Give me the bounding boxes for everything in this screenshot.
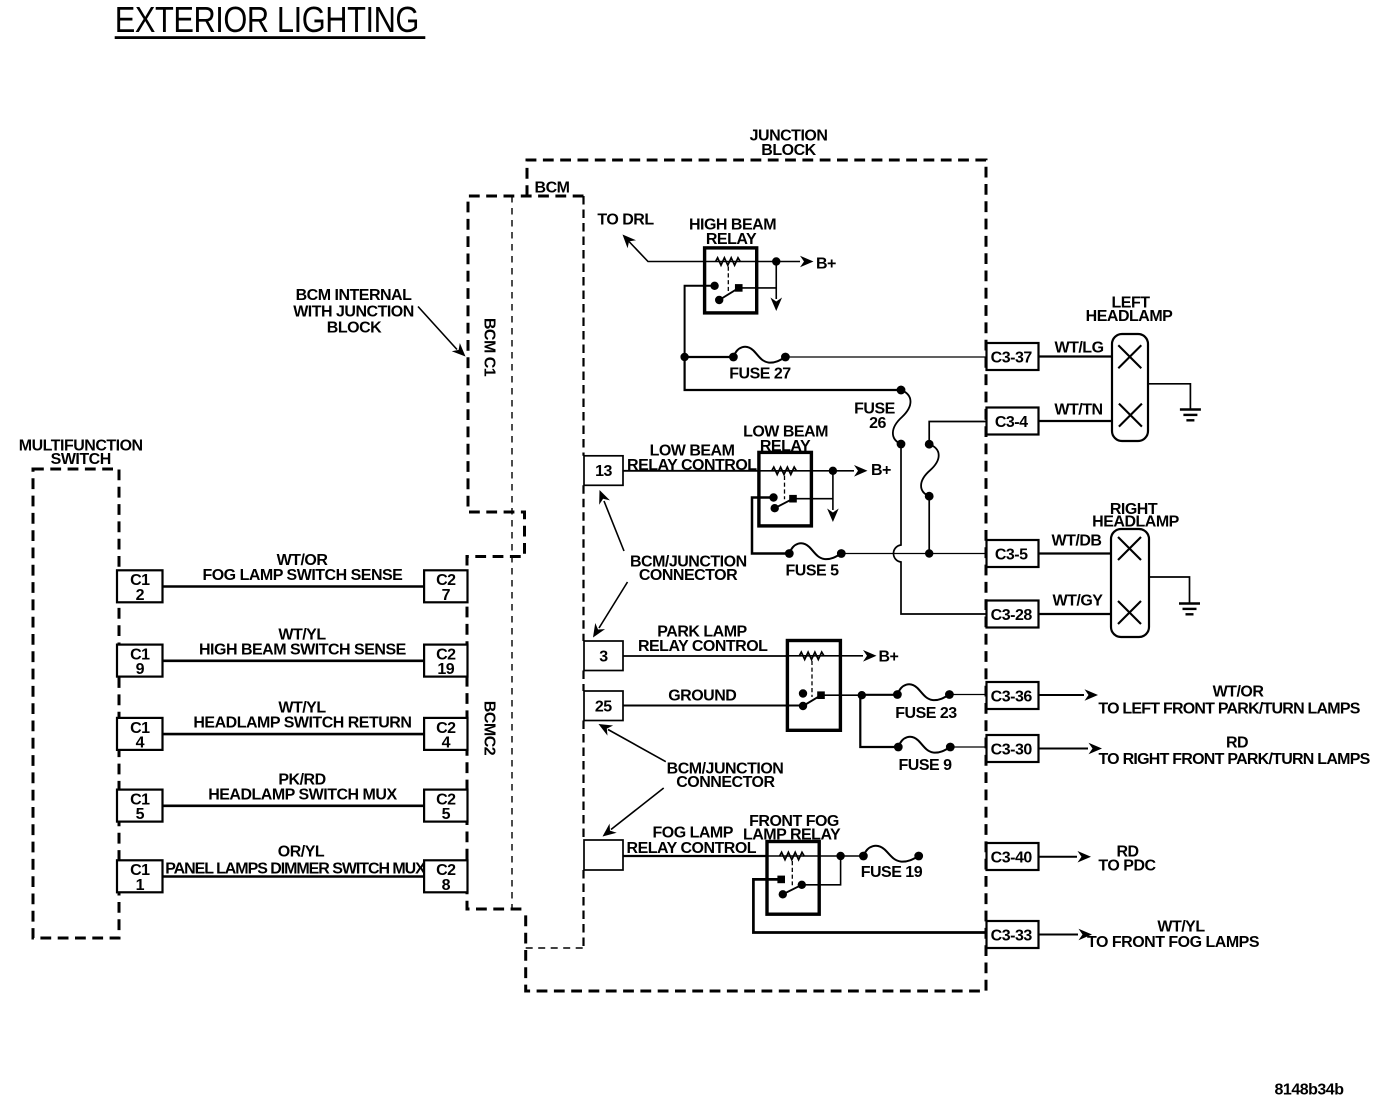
low beam B+ branch down arrow (827, 471, 839, 522)
fuse 5 (785, 543, 846, 559)
svg-text:1: 1 (136, 877, 145, 894)
connector (fog lamp relay control, unlabeled) (584, 840, 623, 870)
arrow to connector 13 (594, 488, 624, 551)
svg-text:WT/TN: WT/TN (1054, 402, 1102, 419)
wire label WT/YL HIGH BEAM SWITCH SENSE (199, 626, 407, 658)
svg-text:RD: RD (1226, 734, 1248, 751)
svg-text:C3-37: C3-37 (991, 349, 1033, 366)
svg-text:B+: B+ (871, 462, 891, 479)
label FUSE 19 (861, 864, 923, 881)
label LOW BEAM RELAY (743, 424, 828, 455)
left headlamp ground wire (1148, 384, 1190, 409)
wire switch to fuse 27 node (680, 286, 714, 361)
label FUSE 5 (785, 563, 839, 580)
wire C3-30 output arrow (1039, 743, 1103, 755)
high beam B+ branch down arrow (770, 262, 782, 312)
connector C3-4 (987, 408, 1039, 435)
svg-text:C3-36: C3-36 (991, 688, 1033, 705)
right headlamp ground wire (1149, 577, 1190, 603)
connector C3-33 (987, 921, 1039, 948)
wire fog relay to C3-33 (753, 879, 986, 932)
park lamp relay coil wire + B+ (787, 650, 876, 662)
label HIGH BEAM RELAY (689, 217, 776, 248)
wire fuse 9 to C3-30 (950, 746, 986, 748)
label PARK LAMP RELAY CONTROL (638, 624, 768, 655)
svg-text:TO PDC: TO PDC (1098, 857, 1156, 874)
wire connector 13 to low beam relay (623, 470, 759, 472)
svg-text:8148b34b: 8148b34b (1275, 1082, 1345, 1099)
connector C3-40 (987, 843, 1039, 870)
junction block label (750, 128, 828, 159)
wire C3-36 output arrow (1039, 689, 1099, 701)
label TO DRL (597, 212, 654, 229)
ground (right headlamp) (1179, 604, 1200, 615)
connector C3-30 (987, 735, 1039, 762)
left headlamp (1112, 334, 1148, 441)
BCM label (535, 180, 570, 197)
svg-text:C3-5: C3-5 (995, 546, 1028, 563)
label FUSE 23 (895, 705, 957, 722)
arrow from note to BCM C1 (418, 307, 470, 361)
fuse 23 (893, 684, 954, 700)
arrow to fog connector (599, 788, 664, 841)
wire fog connector to relay (623, 855, 767, 857)
wire wave to fuse5 line junction (925, 496, 933, 557)
svg-text:WT/LG: WT/LG (1054, 340, 1103, 357)
park lamp relay (787, 641, 840, 731)
label FOG LAMP RELAY CONTROL (627, 825, 757, 857)
svg-text:BCM: BCM (535, 180, 570, 197)
svg-text:26: 26 (869, 415, 886, 432)
connector C3-5 (987, 540, 1039, 567)
svg-text:TO FRONT FOG LAMPS: TO FRONT FOG LAMPS (1087, 934, 1260, 951)
svg-text:C3-33: C3-33 (991, 927, 1033, 944)
label GROUND (668, 688, 736, 705)
crossover wave (C3-4 branch) (921, 440, 939, 501)
wire label OR/YL PANEL LAMPS DIMMER SWITCH MUX (165, 844, 426, 878)
svg-text:C3-4: C3-4 (995, 414, 1028, 431)
wire fuse 27 to C3-37 (785, 356, 986, 358)
label BCM/JUNCTION CONNECTOR (lower) (667, 761, 784, 792)
title EXTERIOR LIGHTING (115, 1, 426, 41)
svg-text:SWITCH: SWITCH (51, 451, 111, 468)
connector C2 pin 5 (424, 790, 467, 824)
wire label PK/RD HEADLAMP SWITCH MUX (208, 771, 397, 803)
svg-text:BCM C1: BCM C1 (481, 318, 498, 377)
connector C2 pin 19 (424, 645, 467, 679)
connector C3-36 (987, 682, 1039, 709)
label WT/OR TO LEFT FRONT PARK/TURN LAMPS (1098, 684, 1360, 718)
wire C3-28 to right headlamp (1039, 613, 1112, 615)
wire fuse 26 to C3-28 (with crossover hop) (894, 444, 987, 614)
multifunction switch (dashed box) (33, 469, 119, 938)
arrow to connector 3 (588, 582, 627, 641)
BCM right edge dashed (BCM/junction boundary) (582, 196, 584, 948)
svg-text:BLOCK: BLOCK (327, 320, 382, 337)
BCM bottom thin dashed line (526, 947, 584, 949)
BCM inner thin dashed line (511, 196, 513, 909)
connector C2 pin 8 (424, 860, 467, 894)
svg-text:3: 3 (599, 648, 608, 665)
svg-text:4: 4 (136, 734, 145, 751)
wire connector 3 to park lamp relay (623, 655, 787, 657)
svg-text:FUSE 27: FUSE 27 (729, 366, 791, 383)
svg-text:B+: B+ (816, 256, 836, 273)
front fog lamp relay (767, 842, 819, 915)
connector C1 pin 4 (117, 718, 163, 752)
label RD TO PDC (1098, 843, 1156, 874)
wire C3-5 to right headlamp (1039, 552, 1112, 554)
junction block (dashed box) (526, 160, 986, 991)
low beam relay (759, 452, 812, 526)
svg-text:OR/YL: OR/YL (278, 844, 325, 861)
label B+ (high beam) (816, 256, 836, 273)
svg-text:RELAY CONTROL: RELAY CONTROL (638, 638, 768, 655)
connector C1 pin 9 (117, 645, 163, 679)
BCM C1 label (rotated) (481, 318, 498, 377)
svg-text:CONNECTOR: CONNECTOR (639, 567, 738, 584)
wire C3-33 output arrow (1039, 929, 1093, 941)
svg-text:19: 19 (437, 661, 454, 678)
wire C3-37 to left headlamp (1039, 355, 1113, 357)
wire to fuse 23 (860, 694, 897, 696)
fog relay coil wire to junction (767, 852, 863, 860)
BCM outline (thick dashed) (467, 196, 584, 909)
svg-text:WT/YL: WT/YL (1157, 918, 1205, 935)
part number 8148b34b (1275, 1082, 1345, 1099)
label B+ (park lamp) (879, 648, 899, 665)
svg-text:FUSE 5: FUSE 5 (785, 563, 839, 580)
svg-text:WT/OR: WT/OR (1213, 684, 1265, 701)
svg-text:HEADLAMP: HEADLAMP (1086, 308, 1173, 325)
svg-text:BCM INTERNAL: BCM INTERNAL (296, 287, 412, 304)
label WT/LG (1054, 340, 1103, 357)
wire node to fuse 27 (685, 356, 734, 358)
note: BCM INTERNAL WITH JUNCTION BLOCK (293, 287, 414, 337)
svg-text:7: 7 (442, 587, 451, 604)
label BCM/JUNCTION CONNECTOR (upper) (630, 554, 747, 585)
connector C3-28 (987, 601, 1039, 628)
svg-text:BCMC2: BCMC2 (481, 701, 498, 756)
wire down to fuse 9 (860, 695, 898, 747)
svg-text:FUSE 23: FUSE 23 (895, 705, 957, 722)
multifunction switch label (19, 437, 143, 468)
label LEFT HEADLAMP (1086, 295, 1173, 326)
svg-text:CONNECTOR: CONNECTOR (676, 774, 775, 791)
park relay switch output (821, 691, 866, 699)
wire C1-9 to C2-19 (162, 659, 424, 662)
label WT/YL TO FRONT FOG LAMPS (1087, 918, 1260, 951)
wire fuse 5 to C3-5 (841, 553, 986, 555)
svg-text:25: 25 (595, 698, 612, 715)
label LOW BEAM RELAY CONTROL (627, 443, 757, 474)
arrow to connector 25 (596, 719, 666, 762)
wire C1-4 to C2-4 (162, 733, 424, 736)
wire to DRL with arrow (618, 231, 704, 262)
label RIGHT HEADLAMP (1092, 501, 1179, 531)
fuse 19 (859, 846, 923, 862)
svg-text:5: 5 (136, 806, 145, 823)
label B+ (low beam) (871, 462, 891, 479)
svg-text:PANEL LAMPS DIMMER SWITCH MUX: PANEL LAMPS DIMMER SWITCH MUX (165, 861, 426, 878)
svg-text:2: 2 (136, 587, 145, 604)
wire node down to fuse 26 (685, 357, 906, 394)
label FUSE 27 (729, 366, 791, 383)
wire C1-2 to C2-7 (162, 585, 424, 588)
svg-text:RELAY: RELAY (706, 231, 757, 248)
svg-text:C3-28: C3-28 (991, 607, 1033, 624)
low beam switch output wire (793, 498, 833, 500)
svg-text:HEADLAMP SWITCH MUX: HEADLAMP SWITCH MUX (208, 786, 397, 803)
ground (left headlamp) (1180, 410, 1201, 421)
connector pin 25 (584, 691, 623, 721)
wire C1-1 to C2-8 (162, 875, 424, 878)
connector C1 pin 2 (117, 570, 163, 604)
svg-text:FUSE 9: FUSE 9 (898, 757, 952, 774)
svg-text:WT/DB: WT/DB (1052, 533, 1102, 550)
wire low beam switch to fuse 5 (752, 498, 789, 554)
connector C2 pin 4 (424, 718, 467, 752)
high beam relay (705, 248, 757, 313)
BCMC2 label (rotated) (481, 701, 498, 756)
fuse 26 (893, 386, 911, 449)
wire label WT/YL HEADLAMP SWITCH RETURN (193, 700, 411, 732)
label RD TO RIGHT FRONT PARK/TURN LAMPS (1098, 734, 1370, 768)
wire fuse 23 to C3-36 (949, 694, 986, 696)
svg-text:HIGH BEAM SWITCH SENSE: HIGH BEAM SWITCH SENSE (199, 641, 407, 658)
svg-text:WITH JUNCTION: WITH JUNCTION (293, 304, 414, 321)
wire C1-5 to C2-5 (162, 804, 424, 807)
fog switch output wire up to junction (802, 856, 841, 885)
wire C3-40 output arrow (1039, 851, 1092, 863)
svg-text:TO RIGHT FRONT PARK/TURN LAMPS: TO RIGHT FRONT PARK/TURN LAMPS (1098, 751, 1370, 768)
svg-text:EXTERIOR LIGHTING: EXTERIOR LIGHTING (115, 1, 419, 41)
svg-text:13: 13 (595, 463, 612, 480)
wire connector 25 (ground) to park relay (623, 705, 803, 707)
svg-text:BLOCK: BLOCK (761, 142, 816, 159)
label WT/GY (1053, 593, 1104, 610)
connector C1 pin 5 (117, 790, 163, 824)
svg-text:8: 8 (442, 877, 451, 894)
svg-text:RELAY CONTROL: RELAY CONTROL (627, 840, 757, 857)
wire C3-4 branch (929, 422, 986, 445)
svg-text:HEADLAMP SWITCH RETURN: HEADLAMP SWITCH RETURN (193, 715, 411, 732)
svg-text:WT/GY: WT/GY (1053, 593, 1104, 610)
fuse 9 (894, 737, 955, 753)
svg-text:GROUND: GROUND (668, 688, 736, 705)
label FUSE 26 (854, 401, 896, 432)
connector pin 3 (584, 641, 623, 671)
high beam relay coil wire + B+ (705, 256, 814, 268)
fuse 27 (729, 347, 790, 363)
label FUSE 9 (898, 757, 952, 774)
svg-text:5: 5 (442, 806, 451, 823)
svg-text:4: 4 (442, 734, 451, 751)
svg-text:9: 9 (136, 661, 145, 678)
label WT/TN (1054, 402, 1102, 419)
wire label WT/OR FOG LAMP SWITCH SENSE (202, 552, 403, 584)
label WT/DB (1052, 533, 1102, 550)
low beam relay coil wire + B+ (759, 465, 868, 477)
connector C3-37 (987, 343, 1039, 370)
svg-text:FOG LAMP SWITCH SENSE: FOG LAMP SWITCH SENSE (202, 567, 403, 584)
connector C1 pin 1 (117, 860, 163, 894)
svg-text:C3-40: C3-40 (991, 849, 1033, 866)
svg-text:B+: B+ (879, 648, 899, 665)
high beam switch output wire (739, 287, 777, 289)
label FRONT FOG LAMP RELAY (743, 813, 841, 844)
svg-text:TO LEFT FRONT PARK/TURN LAMPS: TO LEFT FRONT PARK/TURN LAMPS (1098, 700, 1360, 717)
svg-text:C3-30: C3-30 (991, 741, 1033, 758)
connector pin 13 (584, 456, 623, 486)
right headlamp (1111, 529, 1149, 637)
svg-text:TO DRL: TO DRL (597, 212, 654, 229)
connector C2 pin 7 (424, 570, 467, 604)
wire C3-4 to left headlamp (1039, 420, 1113, 422)
svg-text:FUSE 19: FUSE 19 (861, 864, 923, 881)
